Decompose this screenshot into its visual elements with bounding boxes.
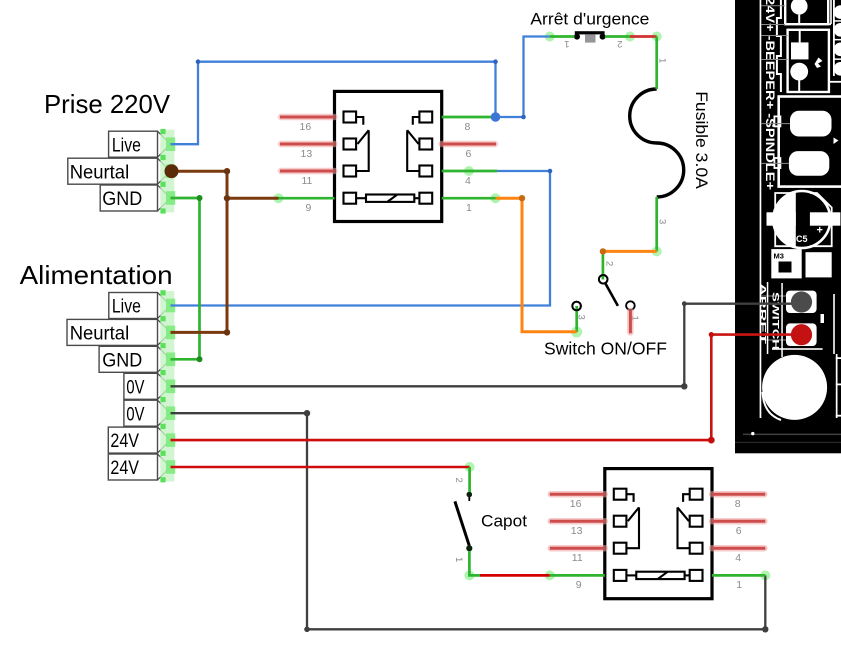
wire green: S1 pin 1 lead	[550, 35, 575, 38]
svg-text:SWITCH: SWITCH	[771, 292, 781, 350]
pin box GND (J2)	[99, 346, 157, 372]
svg-text:GND: GND	[102, 188, 142, 210]
relay K2 pin stub 8	[712, 493, 765, 496]
svg-text:6: 6	[466, 148, 472, 160]
unconnected pin stubs (red) glow	[281, 117, 764, 548]
relay K1 pin stub 1 (green, connected)	[442, 197, 496, 200]
pad SWITCH terminal 2 (white)	[786, 323, 817, 346]
svg-text:13: 13	[571, 525, 583, 537]
pin box Neurtal (J1)	[68, 158, 158, 184]
svg-text:2: 2	[604, 261, 615, 266]
toggle switch S2 "Switch ON/OFF" (SPDT)	[572, 275, 634, 310]
svg-text:1: 1	[453, 557, 464, 562]
svg-text:4: 4	[465, 175, 471, 187]
svg-text:4: 4	[735, 552, 741, 564]
svg-text:1: 1	[466, 202, 472, 214]
PCB pad SWITCH 2 (red)	[791, 324, 812, 345]
svg-text:GND: GND	[102, 349, 142, 371]
svg-text:8: 8	[735, 498, 741, 510]
svg-text:0V: 0V	[126, 403, 144, 425]
svg-text:16: 16	[300, 121, 312, 133]
brown bend points	[224, 168, 230, 336]
svg-text:1: 1	[657, 58, 668, 63]
wire red: S3 pin 1 to relay K2 pin 9	[480, 574, 550, 577]
svg-text:3: 3	[657, 219, 668, 224]
svg-text:Neurtal: Neurtal	[70, 323, 130, 345]
relay K2 pin stub 13	[550, 520, 605, 523]
gray bend points	[304, 301, 769, 632]
pushbutton S1 "Arrêt d'urgence"	[574, 31, 606, 42]
fuse F1 "Fusible 3.0A"	[630, 89, 684, 197]
svg-text:Switch ON/OFF: Switch ON/OFF	[544, 339, 667, 359]
relay K2 pin labels	[570, 498, 743, 591]
wire green: switch S2 pin 3 lead	[575, 306, 578, 332]
connector J1 green strip	[160, 129, 175, 214]
board bottom edge	[743, 434, 841, 436]
svg-text:6: 6	[736, 525, 742, 537]
relay K1 pin stub 4 (green, connected)	[442, 170, 497, 173]
relay K1 pin labels	[300, 121, 473, 214]
wire red: S1 pin 2 to fuse F1 pin 1	[630, 35, 657, 38]
svg-text:24V: 24V	[110, 457, 139, 479]
wire red: J2 24V a to PCB node	[171, 439, 712, 442]
wire green: fuse F1 pin 1 lead	[655, 37, 658, 90]
svg-text:11: 11	[302, 175, 313, 187]
switch S2 pin stub 1	[629, 310, 632, 333]
pin box 24V a (J2)	[108, 427, 157, 453]
wire blue: node A to pushbutton S1 pin 1	[496, 37, 550, 118]
wire dark red: node to PCB SWITCH pad 2	[711, 335, 796, 441]
svg-text:1: 1	[736, 579, 742, 591]
svg-text:8: 8	[465, 121, 471, 133]
relay K2 pin stub 4	[712, 547, 765, 550]
mounting hole pad	[772, 348, 823, 350]
capacitor C5	[767, 189, 841, 250]
svg-text:Live: Live	[112, 296, 141, 318]
svg-text:2: 2	[617, 38, 622, 49]
pin box GND (J1)	[100, 185, 157, 211]
pin box Neurtal (J2)	[67, 319, 158, 345]
pin box Live (J2)	[109, 293, 158, 319]
wire blue: J1 Live to node A (relay K1 pin 8)	[171, 62, 496, 145]
switch S2 ring overlays	[599, 275, 608, 284]
relay K2 pin stub 6	[712, 520, 765, 523]
svg-text:13: 13	[301, 148, 313, 160]
connector J2 green strip	[160, 290, 175, 482]
svg-text:+: +	[817, 225, 823, 237]
svg-text:Alimentation: Alimentation	[20, 260, 173, 290]
wire green: J1 GND to J2 GND	[171, 198, 200, 359]
terminal block C (SPINDLE)	[774, 97, 841, 187]
svg-text:9: 9	[576, 579, 582, 591]
wire green: S1 pin 2 lead	[605, 35, 630, 38]
wire brown: branch to relay K1 pin 9	[227, 197, 279, 200]
relay K1 pin stub 13	[280, 143, 335, 146]
relay K2 pin stub 16	[550, 493, 605, 496]
wire brown: J1 Neurtal to J2 Neurtal	[171, 171, 228, 332]
PCB controller board (photo fragment)	[735, 0, 841, 453]
terminal block A	[777, 0, 828, 92]
junction node A (blue, relay K1 pin 8)	[491, 112, 501, 122]
red bend point	[708, 437, 715, 444]
relay K1 pin stub 6	[442, 143, 496, 146]
svg-text:24V+ -BEEPER+ -SPINDLE+: 24V+ -BEEPER+ -SPINDLE+	[763, 0, 775, 190]
svg-text:9: 9	[306, 202, 312, 214]
svg-text:1: 1	[564, 38, 569, 49]
wire green: segment into relay K1 pin 9	[279, 197, 335, 200]
svg-text:Arrêt d'urgence: Arrêt d'urgence	[530, 10, 649, 29]
relay K2 pin stub 9 (green, connected)	[550, 574, 605, 577]
wire gray: J2 0V a to PCB SWITCH pad 1	[171, 304, 797, 387]
connection glow highlights	[274, 32, 771, 581]
orange bend points	[519, 195, 606, 255]
wire green: S3 pin 2 lead	[468, 467, 471, 492]
part box M3	[771, 249, 831, 278]
connector J2 "Alimentation"	[67, 290, 175, 482]
wire green: fuse F1 pin 3 lead	[655, 197, 658, 251]
svg-text:Capot: Capot	[481, 512, 527, 531]
relay K2 pin stub 11	[550, 547, 605, 550]
wire green: switch S2 pin 2 lead	[602, 251, 605, 279]
relay K1 pin stub 11	[280, 170, 335, 173]
wire red: J2 24V b to switch S3 pin 2	[171, 466, 470, 469]
wire orange: relay K1 pin 1 to switch S2 pin 3	[496, 198, 577, 332]
svg-text:0V: 0V	[126, 376, 144, 398]
svg-text:Prise 220V: Prise 220V	[44, 89, 171, 119]
svg-text:11: 11	[572, 552, 583, 564]
svg-text:M3: M3	[774, 252, 784, 261]
pad SWITCH terminal 1 (white)	[786, 291, 817, 313]
wire blue: relay K1 pin 4 to J2 Live	[171, 171, 551, 306]
connector J1 "Prise 220V"	[68, 129, 175, 214]
blue bend points	[196, 59, 553, 173]
relay K2 (bottom DPDT relay)	[605, 469, 712, 599]
svg-text:Fusible 3.0A: Fusible 3.0A	[692, 91, 710, 189]
gray trace lines	[762, 6, 791, 340]
switch S3 "Capot" (SPST lever)	[455, 492, 473, 552]
pin box Live (J1)	[109, 131, 158, 157]
svg-text:C5: C5	[796, 234, 808, 244]
relay K1 pin stub 16	[280, 116, 335, 119]
terminal block B	[788, 30, 829, 92]
svg-text:Live: Live	[112, 134, 141, 156]
svg-text:ARRET: ARRET	[758, 283, 768, 346]
PCB pad SWITCH 1 (gray)	[791, 291, 812, 312]
svg-text:2: 2	[453, 478, 464, 483]
green bend points	[197, 195, 203, 362]
relay K1 pin stub 8 (green, connected)	[442, 116, 496, 119]
svg-text:16: 16	[570, 498, 582, 510]
relay K1 (top DPDT relay)	[335, 91, 442, 221]
wire green: S3 pin 1 lead	[469, 551, 480, 575]
junction J1 Neurtal terminal (brown)	[165, 164, 179, 178]
pin box 0V a (J2)	[124, 373, 158, 399]
svg-text:24V: 24V	[110, 430, 139, 452]
wire gray: J2 0V b to relay K2 pin 1	[171, 413, 766, 629]
pin box 0V b (J2)	[124, 400, 158, 426]
right edge pads	[785, 0, 841, 83]
pin box 24V b (J2)	[108, 454, 157, 480]
svg-text:Neurtal: Neurtal	[70, 161, 130, 183]
wire orange: fuse F1 pin 3 to switch S2 pin 2	[603, 250, 657, 253]
relay K2 pin stub 1 (green, connected)	[712, 574, 765, 577]
